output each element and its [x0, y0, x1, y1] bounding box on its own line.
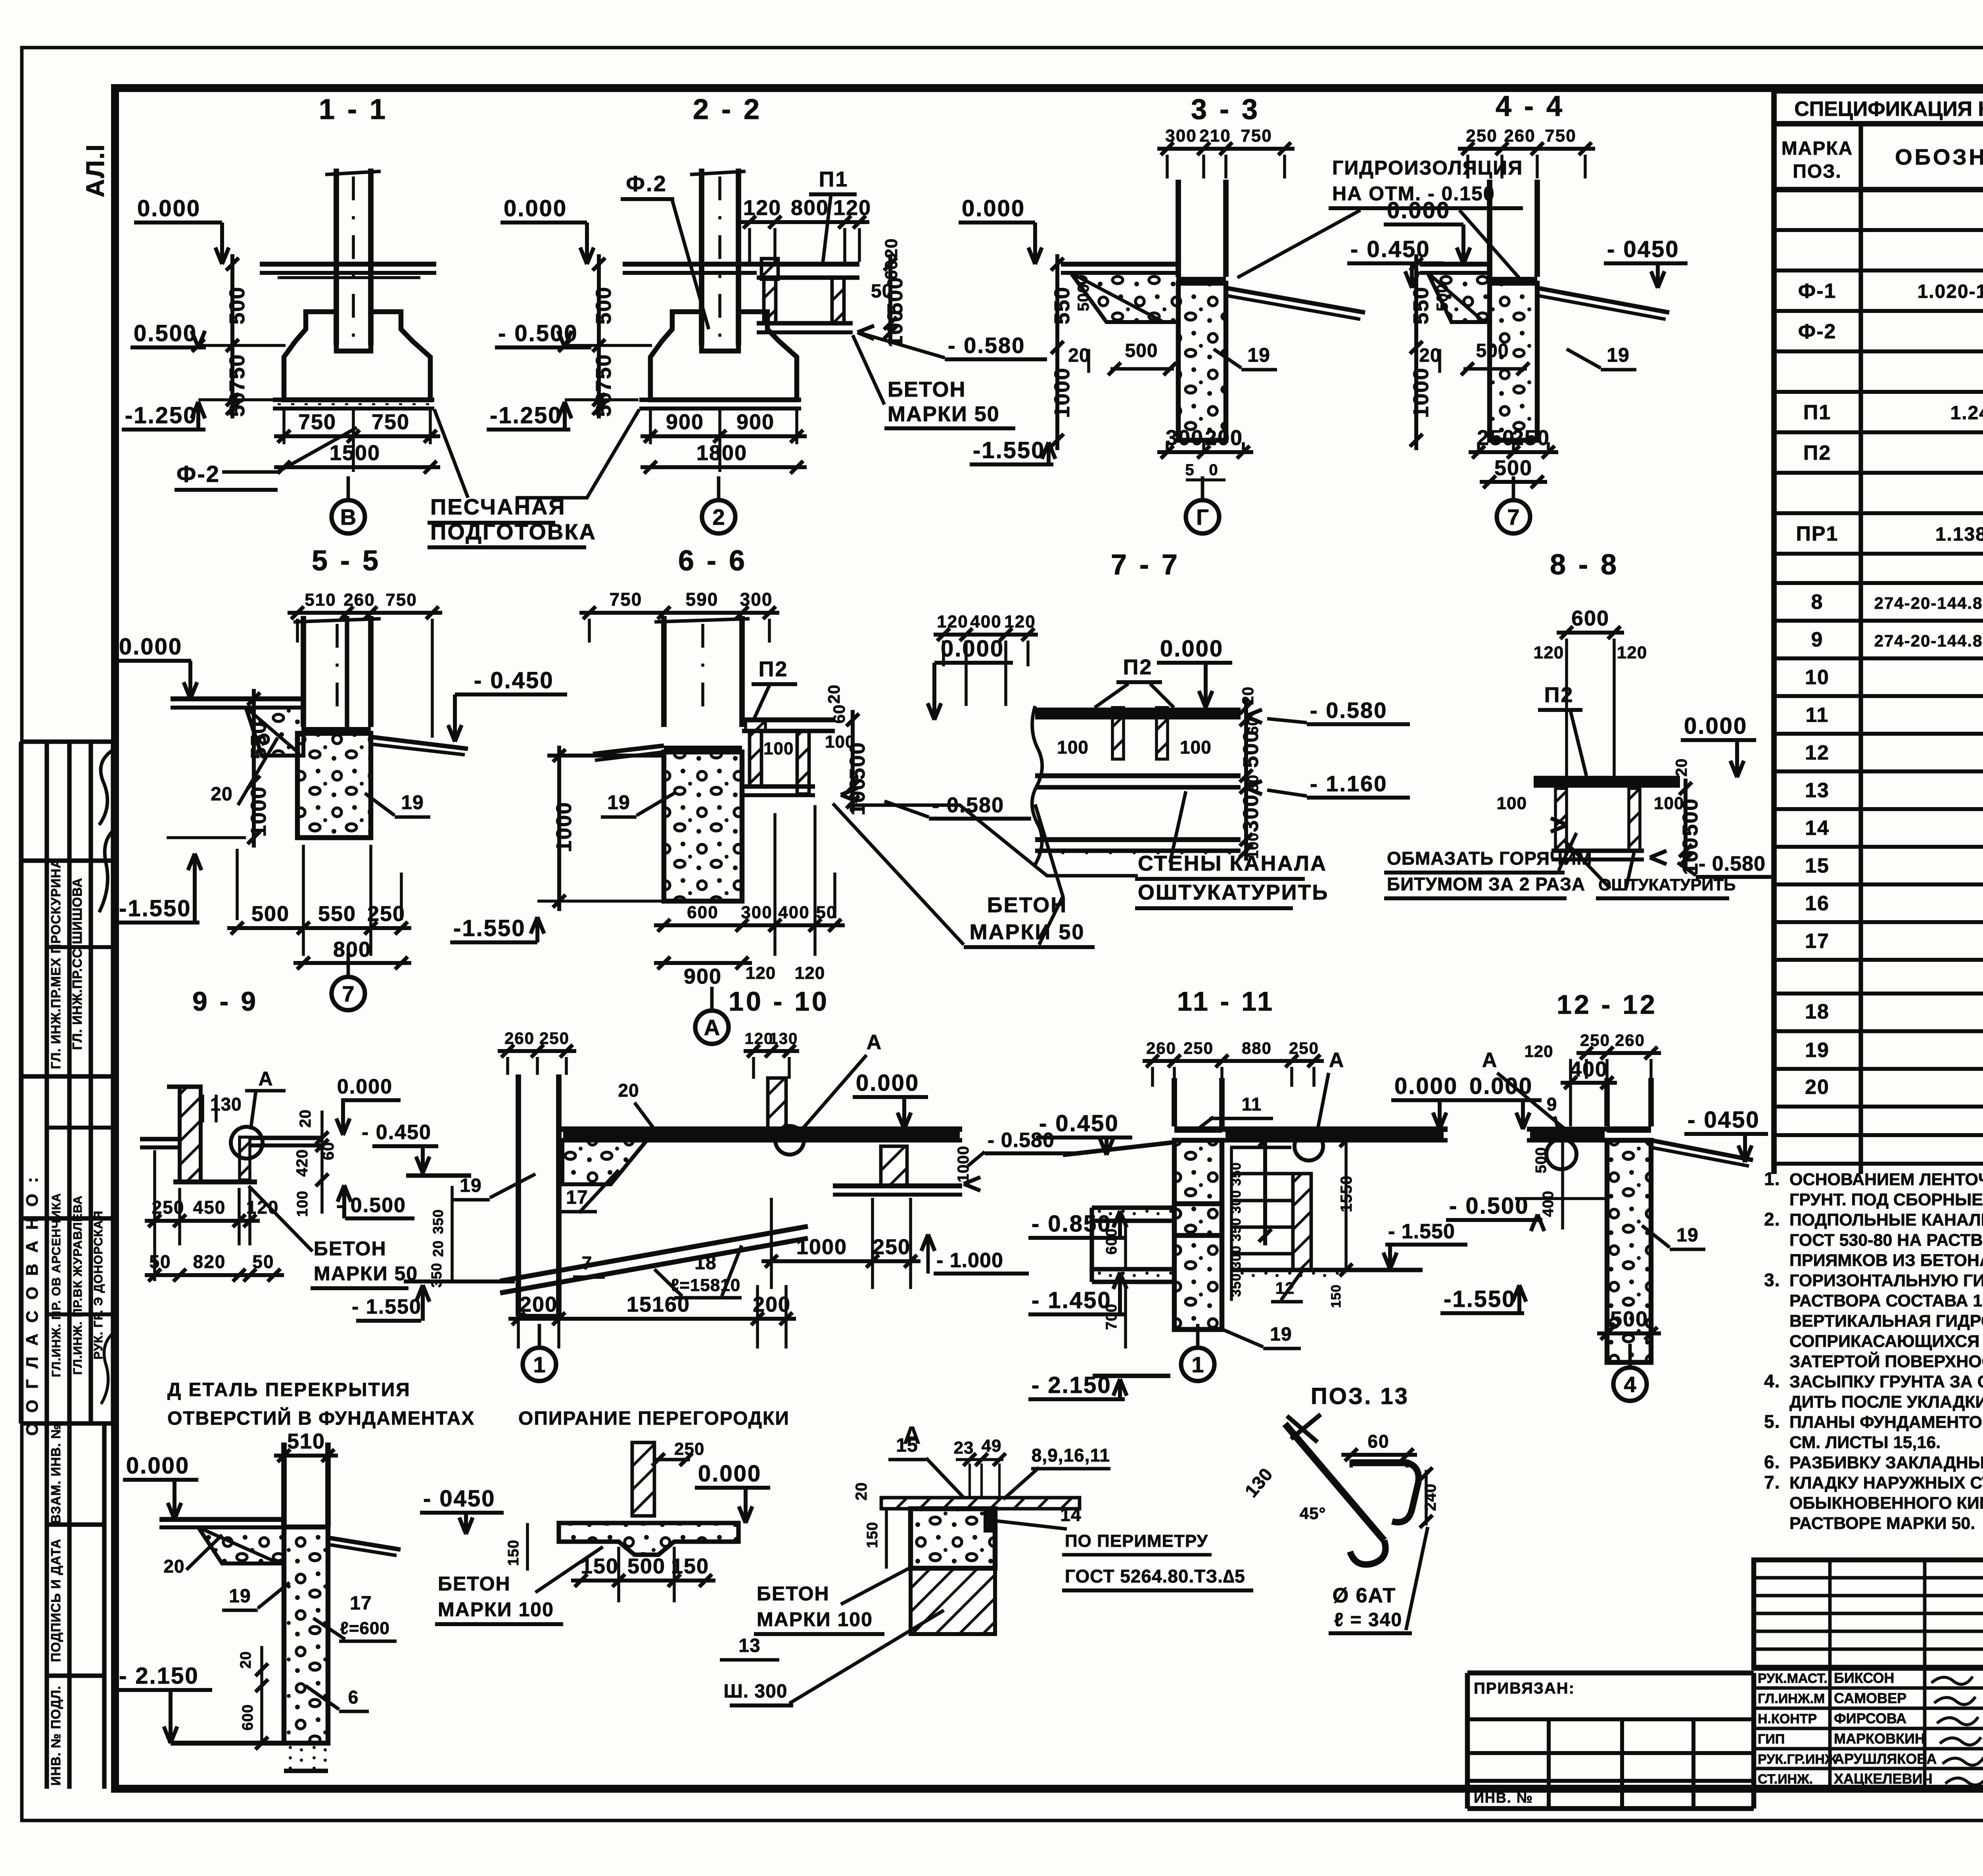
svg-text:17: 17 [350, 1593, 372, 1614]
svg-text:12 - 12: 12 - 12 [1557, 990, 1657, 1020]
svg-text:АРУШЛЯКОВА: АРУШЛЯКОВА [1834, 1751, 1937, 1767]
svg-text:20: 20 [238, 1651, 254, 1669]
svg-text:400: 400 [1570, 1057, 1608, 1081]
svg-text:МАРКИ 50: МАРКИ 50 [970, 920, 1085, 944]
svg-text:0.000: 0.000 [941, 636, 1004, 662]
svg-text:0.000: 0.000 [137, 196, 201, 221]
svg-text:ВЕРТИКАЛЬНАЯ ГИДРОИЗОЛЯЦИЯ С: ВЕРТИКАЛЬНАЯ ГИДРОИЗОЛЯЦИЯ СТЕН ПРИЯМКОВ… [1789, 1312, 1983, 1331]
svg-text:250: 250 [1466, 126, 1497, 146]
svg-text:100: 100 [1057, 737, 1089, 758]
svg-text:120: 120 [937, 612, 968, 631]
svg-text:700: 700 [1103, 1304, 1120, 1330]
svg-text:300: 300 [741, 903, 772, 922]
svg-text:500: 500 [1533, 1147, 1550, 1173]
svg-text:ОТВЕРСТИЙ В ФУНДАМЕНТАХ: ОТВЕРСТИЙ В ФУНДАМЕНТАХ [167, 1407, 475, 1429]
svg-text:500: 500 [1239, 730, 1263, 768]
svg-text:400: 400 [778, 903, 809, 922]
svg-text:15: 15 [896, 1435, 918, 1456]
svg-text:300: 300 [740, 589, 773, 610]
svg-text:20: 20 [853, 1482, 870, 1501]
svg-text:500: 500 [1610, 1307, 1648, 1331]
svg-text:0.000: 0.000 [504, 196, 567, 221]
svg-text:420: 420 [293, 1149, 311, 1177]
svg-text:Ф-1: Ф-1 [1798, 280, 1837, 303]
svg-text:50: 50 [225, 391, 249, 417]
svg-text:400: 400 [970, 612, 1001, 631]
svg-text:274-20-144.85АС1. ИЗ.08.00: 274-20-144.85АС1. ИЗ.08.00 [1874, 631, 1983, 650]
svg-text:550: 550 [1050, 286, 1074, 324]
svg-text:49: 49 [982, 1436, 1002, 1456]
svg-text:10: 10 [1805, 666, 1830, 689]
svg-text:600: 600 [687, 903, 718, 922]
svg-text:Ф.2: Ф.2 [626, 171, 667, 196]
svg-text:250: 250 [873, 1235, 911, 1259]
svg-text:17: 17 [1805, 930, 1830, 953]
svg-text:РУК. ГР. Э ДОНОРСКАЯ: РУК. ГР. Э ДОНОРСКАЯ [91, 1210, 105, 1360]
svg-text:550: 550 [318, 902, 356, 926]
svg-text:750: 750 [372, 410, 410, 434]
svg-text:23: 23 [954, 1438, 974, 1458]
svg-text:П2: П2 [1123, 655, 1153, 679]
svg-text:ГИП: ГИП [1758, 1732, 1785, 1747]
svg-text:-1.550: -1.550 [973, 437, 1045, 463]
svg-text:600: 600 [1103, 1228, 1120, 1255]
svg-text:3 - 3: 3 - 3 [1191, 94, 1260, 125]
svg-text:ПОДПИСЬ И ДАТА: ПОДПИСЬ И ДАТА [48, 1538, 63, 1662]
svg-text:750: 750 [1241, 126, 1272, 146]
svg-text:ГЛ.ИНЖ. ПР. ОВ АРСЕНЧИКА: ГЛ.ИНЖ. ПР. ОВ АРСЕНЧИКА [49, 1193, 63, 1377]
svg-text:- 0.580: - 0.580 [1310, 698, 1387, 723]
svg-text:750: 750 [225, 354, 249, 392]
svg-text:18: 18 [694, 1253, 716, 1274]
svg-text:А: А [1482, 1049, 1498, 1072]
svg-text:16: 16 [1805, 892, 1830, 915]
svg-text:2: 2 [712, 504, 725, 529]
svg-text:МАРКА: МАРКА [1782, 138, 1853, 159]
svg-text:510: 510 [287, 1429, 325, 1453]
svg-text:100: 100 [763, 739, 794, 758]
svg-text:АЛ.I: АЛ.I [81, 144, 109, 197]
svg-text:500: 500 [1075, 284, 1092, 311]
svg-text:ЗАТЕРТОЙ ПОВЕРХНОСТИ.: ЗАТЕРТОЙ ПОВЕРХНОСТИ. [1789, 1352, 1983, 1371]
svg-text:ПОДПОЛЬНЫЕ КАНАЛЫ И ПРИЯМКИ В: ПОДПОЛЬНЫЕ КАНАЛЫ И ПРИЯМКИ ВЫПОЛНЯТЬ ИЗ… [1789, 1210, 1983, 1230]
svg-text:20: 20 [1419, 345, 1441, 366]
svg-text:ГЛ. ИНЖ.ПР.МЕХ ПРОСКУРИНА: ГЛ. ИНЖ.ПР.МЕХ ПРОСКУРИНА [48, 858, 63, 1069]
svg-text:7.: 7. [1764, 1472, 1780, 1492]
svg-text:ПР1: ПР1 [1796, 522, 1839, 545]
svg-text:ПРИВЯЗАН:: ПРИВЯЗАН: [1474, 1680, 1575, 1697]
svg-text:Ш. 300: Ш. 300 [724, 1681, 788, 1702]
svg-text:300: 300 [1165, 126, 1197, 146]
svg-text:20: 20 [211, 784, 232, 805]
svg-text:7: 7 [582, 1253, 593, 1273]
svg-text:0.000: 0.000 [126, 1453, 190, 1479]
svg-text:14: 14 [1805, 817, 1830, 840]
svg-text:С О Г Л А С О В А Н О :: С О Г Л А С О В А Н О : [23, 1174, 41, 1436]
svg-text:4.: 4. [1764, 1371, 1780, 1391]
svg-text:350: 350 [430, 1209, 446, 1234]
svg-text:500: 500 [627, 1554, 665, 1578]
svg-text:- 1.000: - 1.000 [936, 1249, 1003, 1272]
svg-text:500: 500 [592, 286, 616, 324]
svg-text:11: 11 [1806, 704, 1829, 727]
svg-text:0.000: 0.000 [1684, 713, 1747, 739]
svg-text:КЛАДКУ НАРУЖНЫХ СТЕН ЦОКОЛЯ: КЛАДКУ НАРУЖНЫХ СТЕН ЦОКОЛЯ ДО ОТМЕТКИ- … [1789, 1473, 1983, 1492]
svg-text:ЗАСЫПКУ ГРУНТА ЗА СТЕНЫ ПОД: ЗАСЫПКУ ГРУНТА ЗА СТЕНЫ ПОДПОЛЬНЫХ КАНАЛ… [1789, 1372, 1983, 1391]
svg-text:750: 750 [610, 589, 642, 610]
svg-text:- 0450: - 0450 [1607, 236, 1679, 262]
svg-text:- 0.450: - 0.450 [1350, 236, 1431, 262]
svg-text:19: 19 [1270, 1324, 1292, 1345]
svg-text:РАЗБИВКУ ЗАКЛАДНЫХ ДЕТАЛЕЙ: РАЗБИВКУ ЗАКЛАДНЫХ ДЕТАЛЕЙ ПОД ВИТРАЖИ С… [1789, 1453, 1983, 1472]
svg-text:1000: 1000 [552, 802, 576, 852]
svg-text:120: 120 [833, 196, 871, 220]
svg-text:ℓ=600: ℓ=600 [340, 1619, 390, 1638]
svg-text:ИНВ. № ПОДЛ.: ИНВ. № ПОДЛ. [48, 1686, 63, 1786]
svg-text:Ф-2: Ф-2 [1798, 320, 1837, 343]
svg-text:0.000: 0.000 [337, 1075, 393, 1098]
svg-text:-1.250: -1.250 [125, 403, 197, 428]
svg-text:1: 1 [1191, 1352, 1204, 1377]
svg-text:120: 120 [1534, 643, 1564, 662]
svg-text:- 0.580: - 0.580 [948, 333, 1025, 358]
svg-text:150: 150 [505, 1540, 522, 1566]
svg-text:Ø 6АТ: Ø 6АТ [1333, 1584, 1396, 1607]
svg-text:750: 750 [298, 410, 336, 434]
svg-text:11: 11 [1242, 1094, 1262, 1114]
svg-text:50: 50 [592, 391, 616, 417]
svg-text:210: 210 [1199, 126, 1231, 146]
svg-text:П1: П1 [819, 167, 849, 191]
svg-text:0.000: 0.000 [1469, 1073, 1533, 1099]
svg-text:450: 450 [193, 1197, 226, 1218]
svg-text:5 - 5: 5 - 5 [312, 545, 381, 577]
svg-text:6 - 6: 6 - 6 [678, 545, 747, 577]
svg-text:А: А [1329, 1049, 1344, 1072]
svg-text:100: 100 [1180, 737, 1212, 758]
svg-text:БИКСОН: БИКСОН [1834, 1670, 1894, 1686]
svg-text:600: 600 [240, 1704, 256, 1730]
svg-text:3.: 3. [1764, 1270, 1780, 1290]
svg-text:120: 120 [1524, 1042, 1553, 1061]
svg-text:150: 150 [1329, 1284, 1344, 1308]
svg-text:500: 500 [251, 902, 290, 926]
svg-text:120: 120 [746, 963, 776, 983]
svg-text:- 0.850: - 0.850 [1032, 1211, 1112, 1237]
svg-text:ОБОЗНАЧЕНИЕ: ОБОЗНАЧЕНИЕ [1895, 144, 1983, 169]
svg-text:БИТУМОМ ЗА 2 РАЗА: БИТУМОМ ЗА 2 РАЗА [1387, 874, 1585, 894]
svg-text:45°: 45° [1300, 1504, 1326, 1523]
svg-text:260: 260 [1504, 126, 1535, 146]
svg-text:510: 510 [305, 590, 336, 610]
svg-text:2.: 2. [1764, 1209, 1780, 1230]
svg-text:ОБЫКНОВЕННОГО КИРПИЧА ГОСТ: ОБЫКНОВЕННОГО КИРПИЧА ГОСТ 530-80 МАРКИ … [1789, 1494, 1983, 1513]
svg-text:100: 100 [294, 1191, 311, 1217]
svg-text:- 1.450: - 1.450 [1032, 1287, 1112, 1313]
svg-text:800: 800 [791, 196, 829, 220]
svg-text:260: 260 [1615, 1031, 1645, 1049]
svg-text:РУК.ГР.ИНЖ: РУК.ГР.ИНЖ [1758, 1752, 1837, 1767]
svg-text:9: 9 [1811, 628, 1824, 651]
svg-text:- 2.150: - 2.150 [119, 1663, 199, 1689]
svg-text:50: 50 [252, 1251, 274, 1272]
svg-text:120: 120 [743, 196, 781, 220]
svg-text:200: 200 [1205, 426, 1243, 450]
svg-text:500: 500 [1125, 340, 1158, 361]
svg-text:- 1.550: - 1.550 [1388, 1220, 1455, 1243]
svg-text:274-20-144.85АС1. ИЗ.07.00: 274-20-144.85АС1. ИЗ.07.00 [1874, 594, 1983, 612]
svg-text:240: 240 [1422, 1483, 1439, 1511]
svg-text:1000: 1000 [796, 1235, 847, 1259]
svg-text:1800: 1800 [696, 441, 747, 465]
svg-text:П1: П1 [1803, 401, 1831, 424]
svg-text:МАРКИ 100: МАРКИ 100 [438, 1598, 554, 1621]
svg-text:260: 260 [1146, 1039, 1176, 1057]
svg-text:ГЛ. ИНЖ.ПР.СС ШИШОВА: ГЛ. ИНЖ.ПР.СС ШИШОВА [70, 878, 84, 1050]
svg-text:500: 500 [1678, 798, 1702, 836]
svg-text:ДИТЬ ПОСЛЕ УКЛАДКИ ПЛИТ.: ДИТЬ ПОСЛЕ УКЛАДКИ ПЛИТ. [1789, 1393, 1983, 1412]
svg-text:19: 19 [1247, 344, 1270, 366]
svg-text:50: 50 [149, 1251, 171, 1272]
svg-text:- 1.550: - 1.550 [352, 1295, 422, 1318]
svg-text:590: 590 [686, 589, 719, 610]
svg-text:15160: 15160 [627, 1293, 690, 1316]
svg-text:ПО ПЕРИМЕТРУ: ПО ПЕРИМЕТРУ [1065, 1531, 1208, 1551]
svg-text:СТ.ИНЖ.: СТ.ИНЖ. [1758, 1772, 1813, 1787]
svg-text:800: 800 [333, 938, 371, 961]
svg-text:20: 20 [882, 238, 901, 259]
svg-text:14: 14 [1060, 1504, 1081, 1525]
svg-text:4 - 4: 4 - 4 [1496, 90, 1565, 122]
svg-text:СТЕНЫ КАНАЛА: СТЕНЫ КАНАЛА [1138, 852, 1327, 875]
svg-text:- 0450: - 0450 [423, 1486, 495, 1512]
svg-text:СМ. ЛИСТЫ 15,16.: СМ. ЛИСТЫ 15,16. [1789, 1433, 1941, 1452]
svg-text:Ф-2: Ф-2 [176, 461, 220, 487]
svg-text:20: 20 [1068, 345, 1090, 366]
svg-text:ОШТУКАТУРИТЬ: ОШТУКАТУРИТЬ [1598, 875, 1736, 894]
svg-text:19: 19 [1607, 344, 1630, 366]
svg-text:400: 400 [1540, 1191, 1557, 1217]
svg-text:А: А [258, 1068, 273, 1090]
svg-text:1.: 1. [1764, 1168, 1780, 1189]
svg-text:1000: 1000 [1050, 367, 1074, 418]
svg-text:ГИДРОИЗОЛЯЦИЯ: ГИДРОИЗОЛЯЦИЯ [1332, 157, 1523, 179]
svg-text:0.000: 0.000 [698, 1461, 761, 1487]
svg-text:МАРКИ 50: МАРКИ 50 [888, 402, 1000, 426]
svg-text:20: 20 [618, 1080, 639, 1101]
svg-text:120: 120 [1004, 612, 1036, 631]
svg-text:750: 750 [592, 354, 616, 392]
svg-text:19: 19 [1805, 1039, 1830, 1062]
svg-text:0: 0 [1209, 461, 1218, 479]
svg-text:60: 60 [830, 704, 848, 724]
svg-text:ГОСТ 5264.80.ТЗ.∆5: ГОСТ 5264.80.ТЗ.∆5 [1065, 1566, 1245, 1586]
svg-text:ИНВ. №: ИНВ. № [1474, 1790, 1533, 1806]
svg-text:Д ЕТАЛЬ ПЕРЕКРЫТИЯ: Д ЕТАЛЬ ПЕРЕКРЫТИЯ [167, 1379, 411, 1400]
svg-text:1: 1 [533, 1352, 545, 1377]
svg-text:7: 7 [1507, 504, 1519, 529]
svg-text:-1.550: -1.550 [1444, 1286, 1516, 1312]
svg-text:19: 19 [1676, 1225, 1698, 1246]
svg-text:В: В [340, 504, 356, 529]
svg-text:8,9,16,11: 8,9,16,11 [1032, 1445, 1110, 1466]
svg-text:ОСНОВАНИЕМ ЛЕНТОЧНЫХ ФУНДАМЕНТ: ОСНОВАНИЕМ ЛЕНТОЧНЫХ ФУНДАМЕНТОВ СЛУЖИТ … [1789, 1170, 1983, 1189]
svg-text:0.000: 0.000 [1387, 198, 1450, 223]
svg-text:ГРУНТ. ПОД СБОРНЫЕ БАШМАКИ У: ГРУНТ. ПОД СБОРНЫЕ БАШМАКИ УСТРАИВАЕТСЯ … [1789, 1190, 1983, 1209]
svg-text:П2: П2 [759, 657, 788, 681]
svg-text:7 - 7: 7 - 7 [1111, 549, 1180, 581]
svg-text:0.500: 0.500 [134, 320, 197, 346]
svg-text:ХАЦКЕЛЕВИЧ: ХАЦКЕЛЕВИЧ [1834, 1770, 1933, 1787]
svg-text:900: 900 [684, 965, 722, 988]
svg-text:ПРИЯМКОВ ИЗ БЕТОНА МАРКИ 5: ПРИЯМКОВ ИЗ БЕТОНА МАРКИ 50. [1789, 1251, 1983, 1270]
svg-text:250: 250 [1580, 1031, 1610, 1049]
svg-text:- 0.450: - 0.450 [362, 1121, 432, 1144]
svg-text:600: 600 [1571, 606, 1609, 630]
svg-text:250: 250 [539, 1029, 570, 1047]
svg-text:20: 20 [163, 1556, 184, 1577]
svg-text:Г: Г [1196, 504, 1209, 529]
svg-text:10 - 10: 10 - 10 [729, 986, 829, 1017]
svg-text:6.: 6. [1764, 1452, 1780, 1472]
svg-text:9: 9 [1547, 1094, 1557, 1114]
svg-text:РАСТВОРА СОСТАВА 1:2,ТОЛЩИНОЙ: РАСТВОРА СОСТАВА 1:2,ТОЛЩИНОЙ 20 ММ НА О… [1789, 1291, 1983, 1310]
svg-text:120: 120 [1617, 643, 1647, 662]
svg-text:250: 250 [1512, 426, 1550, 450]
svg-text:60: 60 [882, 260, 901, 280]
svg-text:250: 250 [1477, 426, 1515, 450]
svg-text:20: 20 [1805, 1076, 1830, 1099]
svg-text:БЕТОН: БЕТОН [757, 1583, 830, 1605]
svg-text:500: 500 [1476, 340, 1509, 361]
svg-text:19: 19 [401, 791, 424, 813]
svg-text:А: А [867, 1031, 882, 1054]
svg-text:ПОЗ. 13: ПОЗ. 13 [1311, 1383, 1409, 1409]
svg-text:150: 150 [671, 1554, 709, 1578]
svg-text:ПОЗ.: ПОЗ. [1793, 161, 1841, 182]
svg-text:2 - 2: 2 - 2 [693, 94, 762, 125]
svg-text:20: 20 [825, 685, 843, 704]
svg-text:20: 20 [1673, 758, 1690, 777]
svg-text:1 - 1: 1 - 1 [319, 94, 388, 125]
svg-text:1.243.1-4: 1.243.1-4 [1950, 403, 1983, 424]
svg-text:РАСТВОРЕ МАРКИ 50.: РАСТВОРЕ МАРКИ 50. [1789, 1514, 1975, 1533]
svg-text:250: 250 [1183, 1039, 1214, 1057]
svg-text:19: 19 [460, 1175, 481, 1196]
svg-text:12: 12 [1805, 741, 1830, 764]
svg-text:8 - 8: 8 - 8 [1550, 549, 1619, 581]
svg-text:200: 200 [520, 1293, 558, 1316]
svg-text:750: 750 [385, 590, 417, 610]
svg-text:150: 150 [864, 1522, 881, 1548]
svg-text:20: 20 [430, 1240, 446, 1257]
svg-text:БЕТОН: БЕТОН [888, 378, 966, 401]
svg-text:МАРКИ 50: МАРКИ 50 [314, 1262, 418, 1285]
svg-text:МАРКОВКИН: МАРКОВКИН [1834, 1730, 1925, 1747]
svg-text:5: 5 [1185, 461, 1194, 479]
svg-text:100: 100 [1497, 794, 1527, 813]
svg-text:1000: 1000 [1409, 367, 1433, 418]
svg-text:1000: 1000 [247, 786, 270, 837]
svg-text:А: А [704, 1015, 720, 1040]
svg-text:СОПРИКАСАЮЩИХСЯ С ГРУНТОМ-ОБ: СОПРИКАСАЮЩИХСЯ С ГРУНТОМ-ОБМАЗКА ГОРЯЧИ… [1789, 1332, 1983, 1351]
svg-text:ПЛАНЫ ФУНДАМЕНТОВ, ПОДПОЛЬНЫХ: ПЛАНЫ ФУНДАМЕНТОВ, ПОДПОЛЬНЫХ КАНАЛОВ И … [1789, 1412, 1983, 1432]
svg-text:15: 15 [1805, 854, 1830, 877]
svg-text:4: 4 [1624, 1372, 1636, 1397]
svg-text:САМОВЕР: САМОВЕР [1834, 1690, 1906, 1706]
svg-text:8: 8 [1811, 591, 1824, 614]
svg-text:0.000: 0.000 [856, 1070, 919, 1096]
svg-text:0.000: 0.000 [962, 196, 1025, 221]
svg-text:750: 750 [1545, 126, 1576, 146]
svg-text:250: 250 [1289, 1039, 1319, 1057]
svg-text:20: 20 [297, 1109, 314, 1128]
svg-text:ФИРСОВА: ФИРСОВА [1834, 1710, 1906, 1726]
svg-text:900: 900 [736, 410, 775, 434]
svg-text:- 0.580: - 0.580 [1699, 852, 1766, 875]
svg-text:5.: 5. [1764, 1411, 1780, 1432]
svg-text:300: 300 [1239, 794, 1263, 832]
svg-text:260: 260 [504, 1029, 535, 1047]
svg-text:МАРКИ 100: МАРКИ 100 [757, 1608, 873, 1630]
svg-text:300: 300 [1166, 426, 1204, 450]
svg-text:500: 500 [883, 276, 907, 315]
svg-text:1.138-10 в.1: 1.138-10 в.1 [1935, 524, 1983, 545]
svg-text:ГЛ.ИНЖ. ПР.ВК ЖУРАВЛЕВА: ГЛ.ИНЖ. ПР.ВК ЖУРАВЛЕВА [71, 1195, 84, 1375]
svg-text:880: 880 [1242, 1039, 1272, 1057]
svg-text:СПЕЦИФИКАЦИЯ К СХЕМЕ РАСПОЛОЖ: СПЕЦИФИКАЦИЯ К СХЕМЕ РАСПОЛОЖЕНИЯ ЭЛЕМЕН… [1794, 98, 1983, 121]
svg-text:500: 500 [225, 286, 249, 324]
svg-text:250: 250 [367, 902, 405, 926]
svg-text:500: 500 [1434, 284, 1451, 311]
svg-text:260: 260 [343, 590, 375, 610]
svg-text:П2: П2 [1803, 441, 1831, 464]
svg-text:350: 350 [428, 1262, 445, 1287]
svg-text:РУК.МАСТ.: РУК.МАСТ. [1758, 1671, 1828, 1686]
svg-text:ℓ = 340: ℓ = 340 [1334, 1609, 1402, 1630]
svg-text:П2: П2 [1544, 683, 1574, 707]
svg-text:-1.550: -1.550 [119, 896, 191, 921]
svg-text:500: 500 [846, 742, 869, 780]
svg-text:- 0.500: - 0.500 [336, 1194, 406, 1217]
svg-text:9 - 9: 9 - 9 [192, 986, 258, 1017]
svg-text:ОШТУКАТУРИТЬ: ОШТУКАТУРИТЬ [1138, 880, 1329, 904]
svg-text:130: 130 [769, 1030, 798, 1047]
svg-text:60: 60 [1367, 1431, 1389, 1452]
svg-text:820: 820 [193, 1251, 226, 1272]
svg-text:- 0450: - 0450 [1688, 1107, 1760, 1133]
svg-text:- 0.450: - 0.450 [1039, 1111, 1119, 1136]
svg-text:- 0.500: - 0.500 [1449, 1193, 1529, 1219]
svg-text:0.000: 0.000 [1394, 1073, 1458, 1099]
svg-text:-1.550: -1.550 [453, 915, 525, 941]
svg-text:19: 19 [229, 1586, 251, 1607]
svg-text:20: 20 [1239, 687, 1257, 705]
svg-text:18: 18 [1805, 1000, 1830, 1023]
svg-text:11 - 11: 11 - 11 [1177, 986, 1275, 1017]
svg-text:900: 900 [666, 410, 704, 434]
svg-text:-1.250: -1.250 [490, 403, 562, 428]
svg-text:6: 6 [348, 1687, 359, 1707]
svg-text:- 1.160: - 1.160 [1310, 771, 1387, 796]
svg-text:0.000: 0.000 [1160, 636, 1224, 662]
svg-text:0.000: 0.000 [119, 634, 182, 660]
svg-text:ОПИРАНИЕ ПЕРЕГОРОДКИ: ОПИРАНИЕ ПЕРЕГОРОДКИ [518, 1408, 790, 1429]
svg-text:19: 19 [607, 791, 630, 813]
svg-text:ГОРИЗОНТАЛЬНУЮ ГИДРОИЗОЛЯЦИЮ: ГОРИЗОНТАЛЬНУЮ ГИДРОИЗОЛЯЦИЮ СТЕН ВЫПОЛН… [1789, 1271, 1983, 1290]
svg-text:13: 13 [738, 1635, 760, 1656]
svg-text:1500: 1500 [330, 441, 380, 465]
